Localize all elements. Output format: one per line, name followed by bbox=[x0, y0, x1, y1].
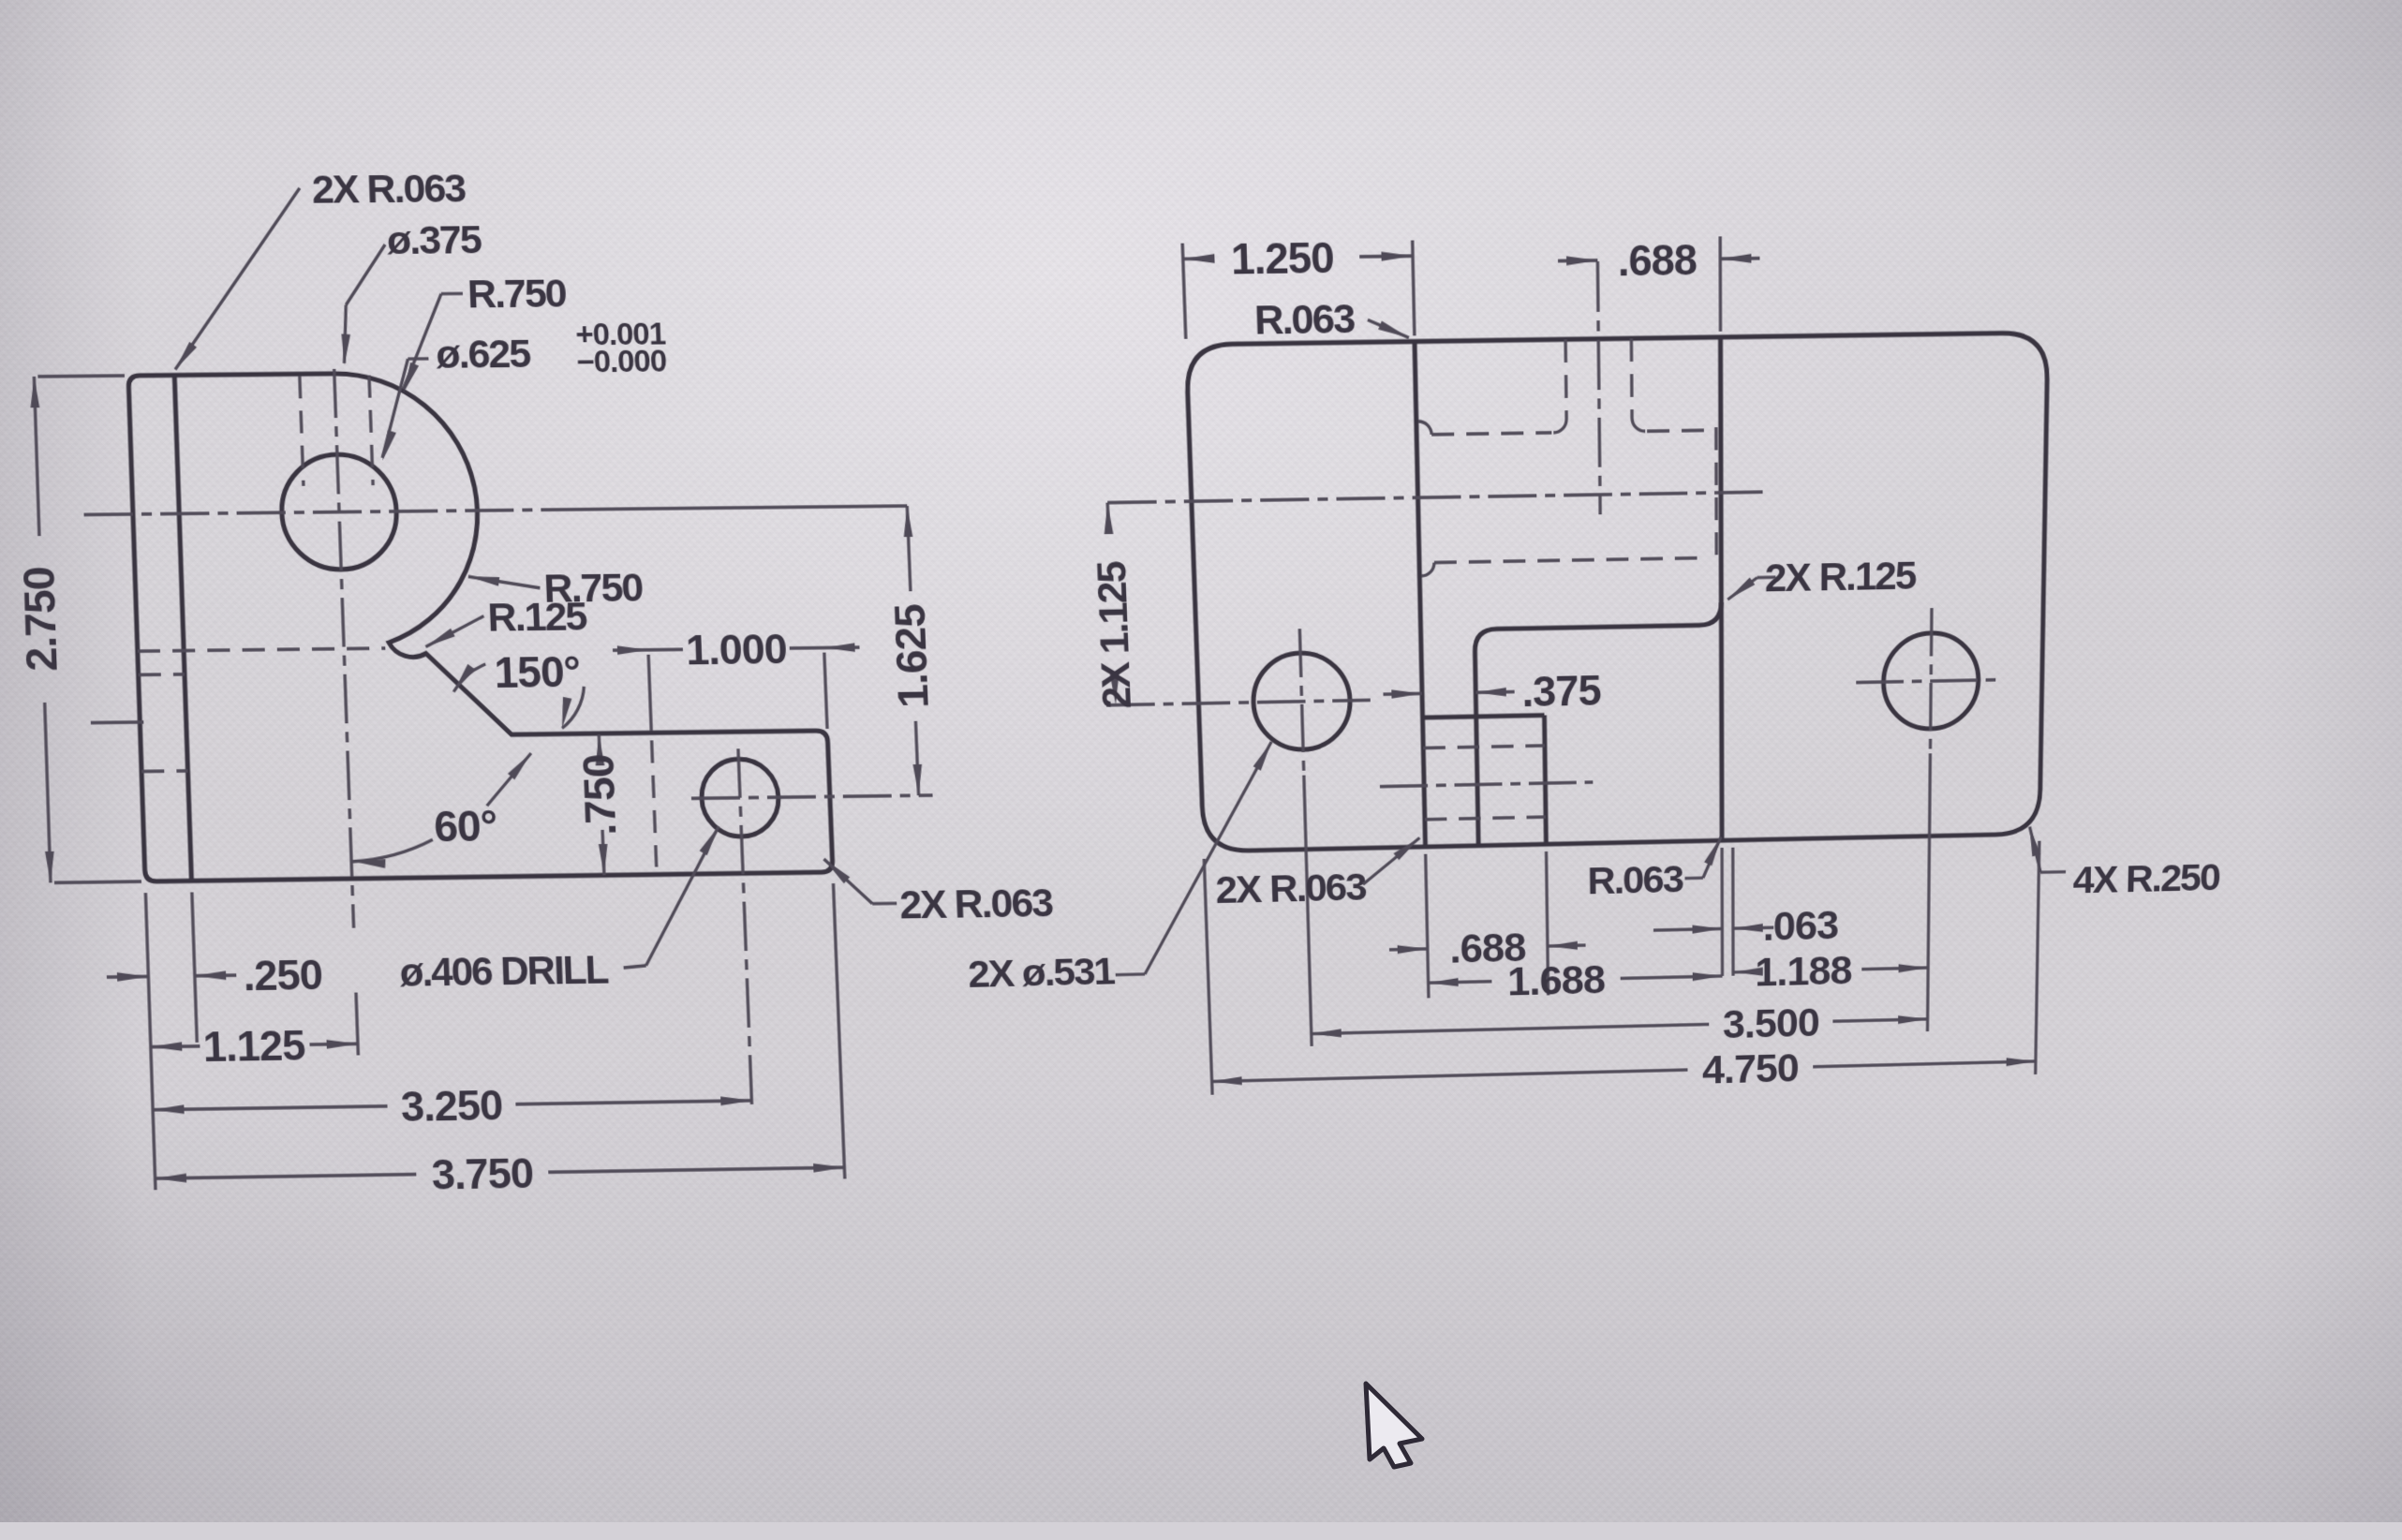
centerline right hole horizontal bbox=[1856, 680, 2000, 683]
dimension .375 bbox=[1384, 692, 1423, 696]
dimension .063 bbox=[1653, 928, 1722, 930]
extension lines 1.000 bbox=[648, 655, 651, 732]
boss outline top edge bbox=[1423, 716, 1545, 718]
hidden line Ø.375 drill right bbox=[369, 376, 373, 485]
extension line left hole down bbox=[1304, 776, 1312, 1046]
dimension 2X 1.125 bbox=[1106, 503, 1110, 523]
dimension .688 bottom bbox=[1389, 947, 1428, 951]
hidden slot right end bbox=[1714, 427, 1718, 559]
extension line left edge below bbox=[145, 893, 156, 1190]
extension line step below bbox=[192, 892, 197, 1042]
hidden vertical drill right bbox=[1630, 338, 1634, 418]
hidden slot bottom bbox=[1434, 557, 1709, 562]
hole Ø.531 left bbox=[1252, 652, 1351, 750]
dimension .688 top bbox=[1558, 259, 1597, 262]
internal edge line 2 bbox=[1721, 337, 1723, 840]
shelf edge with R.125 fillets bbox=[1475, 602, 1722, 846]
centerline vertical drill bbox=[1597, 261, 1600, 514]
hole Ø.625 bore circle bbox=[280, 454, 399, 570]
centerline horizontal boss bbox=[84, 510, 548, 514]
extension lines bottom bbox=[1426, 854, 1429, 999]
hidden line step edge horizontal bbox=[138, 648, 386, 651]
centerline vertical boss bbox=[334, 369, 354, 928]
extension line right hole down bbox=[1927, 753, 1930, 1031]
step edge line bbox=[174, 376, 191, 881]
extension lines top bbox=[1182, 244, 1186, 339]
hidden boss line upper bbox=[1423, 746, 1545, 748]
hidden slot corner arcs bbox=[1418, 422, 1431, 436]
hidden slot top bbox=[1431, 433, 1551, 435]
part outline left view (front view of bracket) bbox=[128, 369, 833, 881]
dimension 1.250 bbox=[1183, 257, 1209, 260]
extension line top left bbox=[37, 374, 125, 378]
centerline left hole vertical bbox=[1299, 629, 1303, 775]
dimension 3.750 bbox=[156, 1175, 417, 1178]
extension line centerline to 1.625 dim bbox=[547, 506, 907, 510]
plate outline top view 4.750 x 2.750 bbox=[1186, 333, 2048, 851]
edge line short left bbox=[91, 720, 143, 724]
mouse cursor bbox=[1366, 1384, 1422, 1467]
dimension 1.625 bbox=[907, 506, 911, 591]
hidden line strip lower bbox=[141, 769, 187, 773]
hole Ø.531 right bbox=[1883, 632, 1979, 730]
dimension .250 bbox=[107, 975, 148, 979]
dimension 2.750 bbox=[34, 377, 39, 536]
centerline boss bbox=[1380, 782, 1593, 787]
dimension .750 bbox=[599, 734, 600, 760]
centerline hole vertical extended bbox=[738, 748, 752, 1112]
centerline left hole horizontal bbox=[1106, 700, 1371, 704]
boss outline right edge bbox=[1544, 716, 1546, 845]
hidden vertical drill left bbox=[1565, 339, 1566, 419]
hidden boss line lower bbox=[1425, 817, 1546, 820]
hole Ø.406 drill circle bbox=[700, 759, 779, 837]
dimension 4.750 bbox=[1212, 1070, 1688, 1081]
hidden line strip upper bbox=[139, 673, 185, 676]
dimension 3.500 bbox=[1312, 1024, 1709, 1033]
extension line centerline below bbox=[356, 993, 358, 1056]
hidden line Ø.375 drill left bbox=[300, 376, 304, 486]
extension line right edge below bbox=[833, 883, 844, 1178]
centerline right hole vertical bbox=[1930, 608, 1932, 753]
internal edge line 1 bbox=[1415, 342, 1426, 847]
dimension 1.188 bbox=[1733, 970, 1745, 974]
extension line bottom left bbox=[54, 881, 141, 882]
centerline hole horizontal bbox=[691, 795, 933, 798]
dimension 3.250 bbox=[153, 1106, 387, 1110]
dimension 1.125 bbox=[151, 1044, 200, 1048]
hidden line boss edge bbox=[652, 740, 657, 866]
dimension 1.688 bbox=[1429, 982, 1492, 984]
centerline plate horizontal bbox=[1107, 492, 1764, 502]
dimension 1.000 bbox=[613, 648, 648, 652]
